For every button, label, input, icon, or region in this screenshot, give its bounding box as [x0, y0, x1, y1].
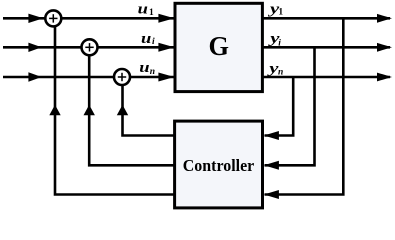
controller block [175, 121, 263, 208]
arrow up into summer 2 [84, 105, 95, 116]
svg-text:1: 1 [149, 8, 154, 18]
svg-text:u: u [138, 2, 148, 18]
arrow input 2 [28, 43, 41, 52]
summing junction 3 [114, 69, 130, 85]
arrow into controller row 1 [264, 131, 279, 140]
wire controller output row 2 to summer 2 [89, 47, 175, 165]
wire output line y1 [262, 17, 390, 20]
summing junction 1 [45, 10, 61, 26]
arrow into G line 1 [158, 14, 174, 23]
wire input line 2 [3, 46, 175, 49]
svg-text:Controller: Controller [183, 156, 255, 175]
arrow output yi [377, 43, 392, 52]
wire output line yn [262, 76, 390, 79]
wire input line 3 [3, 76, 175, 79]
arrow input 3 [28, 72, 41, 81]
arrow into G line 2 [158, 43, 174, 52]
wire controller output row 3 to summer 1 [55, 18, 175, 194]
wire controller output row 1 to summer 3 [123, 77, 176, 136]
wire input line 1 [3, 17, 175, 20]
svg-text:u: u [139, 60, 149, 76]
arrow output y1 [377, 14, 392, 23]
arrow into G line 3 [158, 73, 174, 82]
arrow up into summer 1 [49, 105, 60, 116]
svg-text:i: i [152, 37, 155, 47]
svg-text:i: i [278, 38, 281, 48]
wire feedback tap from yi down to controller row 2 [265, 47, 315, 165]
arrow input 1 [28, 14, 43, 23]
wire output line yi [262, 46, 390, 49]
arrow output yn [377, 73, 392, 82]
svg-text:G: G [208, 31, 229, 61]
arrowheads [28, 14, 392, 199]
svg-text:n: n [278, 67, 283, 77]
wire feedback tap from y1 down to controller row 3 [265, 18, 344, 194]
svg-text:1: 1 [278, 8, 283, 18]
summing junction 2 [82, 39, 98, 55]
svg-text:n: n [150, 67, 155, 77]
arrow into controller row 2 [264, 161, 279, 170]
svg-text:u: u [141, 31, 151, 47]
wire feedback tap from yn down to controller row 1 [265, 77, 294, 136]
arrow up into summer 3 [117, 105, 128, 116]
plant block G [175, 3, 262, 91]
arrow into controller row 3 [264, 190, 279, 199]
